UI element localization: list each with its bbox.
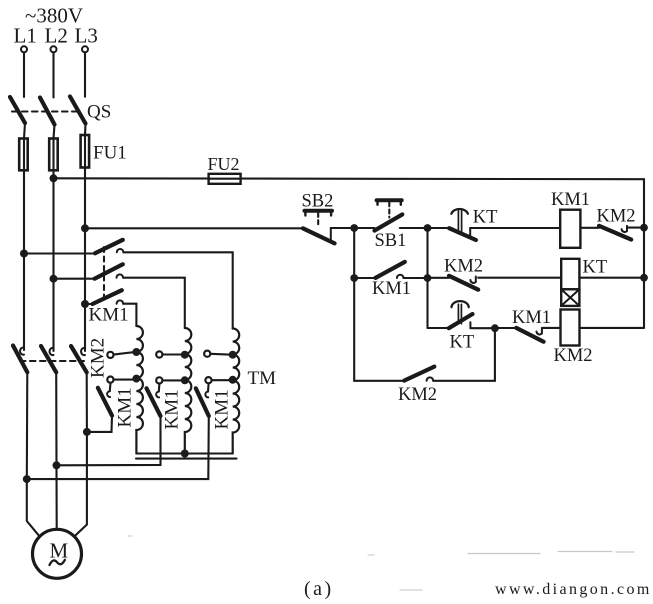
node winding2 lower tap [181,376,189,384]
node control junction A [350,224,358,232]
wire L3 terminal to QS [84,53,86,97]
wire left rail corner row4 [354,380,404,382]
relay KT delayed NC stems [458,211,461,234]
wire L2 below KM2 [55,372,57,465]
svg-text:KM1: KM1 [115,387,136,427]
node winding1 lower tap [132,375,140,383]
pushbutton SB2 blade [303,228,335,243]
svg-text:KM2: KM2 [554,346,593,366]
wire left control rail [353,228,355,381]
terminal L1 [21,46,27,52]
relay KT delayed NC blade [449,228,476,240]
wire L3 below KM2 [86,372,88,432]
svg-text:M: M [50,539,69,563]
wire QS to FU1 L2 [54,125,55,139]
terminal winding3 upper tap circle [210,353,229,356]
svg-text:www.diangon.com: www.diangon.com [495,581,652,598]
wire node B2 to KM2 NC row2 [428,277,450,279]
wire KM1 tap blade1 to L3 [87,416,112,432]
svg-text:KM2: KM2 [597,207,636,227]
switch QS blade 2 [40,98,55,125]
svg-text:SB2: SB2 [302,192,334,212]
contactor KM1 aux NO hook [397,275,404,278]
contactor KM1 main contact hook 2 [117,274,124,277]
wire L3 into motor [75,432,87,536]
wire KM1 aux to node B2 [404,277,428,279]
svg-text:KM1: KM1 [212,389,233,429]
wire KT coil to right rail [579,277,644,279]
coil KM2 [561,310,580,346]
contactor KM1 tap contact 3 stub [207,384,210,392]
wire KM2 NC row2 to KT coil [478,277,561,279]
svg-text:FU1: FU1 [93,143,127,164]
node junction L3 control feed [81,224,89,232]
wire KM1 blade3 to winding1 top [123,304,136,326]
svg-text:(a): (a) [304,578,334,600]
coil KT delay box with X [561,289,579,306]
contactor KM2 main contact 1 hook [20,348,24,355]
relay KT delayed NO stems [458,304,461,324]
node middle rail row2 [424,274,432,282]
terminal winding2 upper tap circle [162,353,181,355]
node control junction B [424,224,432,232]
wire QS to FU1 L1 [24,123,25,139]
svg-text:KM2: KM2 [88,338,109,378]
contactor KM2 aux NO blade row4 [404,367,434,381]
contactor KM1 main blade 1 [95,240,123,254]
wire KM1 blade1 to winding3 top [123,252,232,328]
wire L1 terminal to QS [23,53,25,98]
motor M circle [33,529,82,578]
terminal winding3 lower tap circle [212,379,229,381]
terminal winding1 lower tap circle [114,379,133,381]
svg-text:FU2: FU2 [208,154,240,174]
fuse FU1 element 3 [81,135,90,168]
watermark smudge [468,552,634,554]
wire L3 down [84,228,86,304]
contactor KM1 tap contact 2 hook [156,392,159,398]
wire L3 down to KM2 [84,304,86,351]
pushbutton SB1 blade [375,214,403,230]
node winding2 upper tap [181,351,189,359]
node junction L2 motor wire [53,461,61,469]
terminal L3 [82,46,88,52]
contactor KM1 main contact hook 1 [117,249,124,252]
fuse FU2 [209,174,241,184]
pushbutton SB1 stem dashed [388,202,390,217]
node left rail row2 [350,274,358,282]
wire through fuse L1 [23,139,25,179]
contactor KM2 main blade 3 [71,346,87,372]
fuse FU1 element 2 [49,139,58,171]
svg-text:KM1: KM1 [551,190,590,210]
wire L1 to KM1 blade1 [24,252,95,254]
transformer TM winding 3 [233,329,240,454]
contactor KM2 NC blade row2 [449,276,478,290]
node right rail row1 [640,224,648,232]
wire KM1 tap blade2 to L2 [57,416,161,465]
contactor KM1 NC blade row3 [516,328,543,342]
relay KT delayed NO blade [449,314,473,328]
pushbutton SB2 bar [305,209,333,213]
wire KM1 tap blade3 to L1 [27,416,209,479]
wire KM2 coil to right rail [580,327,645,329]
contactor KM2 main contact 3 hook [81,348,85,355]
wire to KM1 aux NO [354,277,375,279]
svg-text:KT: KT [450,333,475,353]
fuse FU1 element 1 [19,139,28,171]
relay KT delayed NC arc [451,209,468,214]
contactor KM1 aux NO blade [376,262,405,278]
node winding1 upper tap [132,348,140,356]
terminal L2 [51,46,57,52]
pushbutton SB1 bar [377,198,402,202]
svg-text:SB1: SB1 [375,231,407,251]
contactor KM2 main blade 1 [13,346,27,373]
wire star point bus [136,452,232,454]
wire QS to FU1 L3 [84,124,87,136]
node right rail row2 [640,274,648,282]
wire L2 to KM1 blade2 [54,278,95,280]
wire FU2 feed line [54,177,645,180]
node junction L1 motor wire [23,475,31,483]
contactor KM2 NC hook row1 [622,226,627,232]
contactor KM2 main contact 2 hook [50,348,54,355]
contactor KM1 tap blade 1 [98,388,112,416]
svg-text:KT: KT [473,208,498,228]
wire KM1 blade2 to winding2 top [123,278,185,328]
wire control feed row [85,227,303,229]
node star point junction [181,450,189,458]
wire node B to KT contact [428,227,450,229]
node winding3 upper tap [229,351,237,359]
contactor KM1 tap blade 2 [147,388,161,416]
contactor KM1 tap contact 3 hook [205,392,208,398]
switch QS blade 3 [70,97,86,124]
switch QS linkage dashed [12,110,82,112]
wire L2 below FU2 tap [52,178,54,351]
wire KM2 NC to right rail [627,227,644,229]
terminal winding2 lower tap circle [162,379,181,381]
svg-text:KM1: KM1 [89,305,129,326]
wire L1 below KM2 [26,372,29,479]
motor M tilde [50,560,65,565]
svg-text:L1: L1 [14,24,37,48]
wire KT NO to node C [470,327,495,329]
wire middle rail corner to KT NO [428,327,449,329]
contactor KM1 main blade 2 [95,264,123,278]
svg-text:TM: TM [248,368,277,389]
relay KT delayed NC stub [469,228,471,236]
coil KM1 [560,210,580,248]
coil KT box [561,259,579,290]
relay KT delayed NO stub [469,322,471,328]
contactor KM1 tap contact 1 hook [107,391,110,397]
svg-text:KM1: KM1 [372,279,411,299]
contactor KM2 main blade 2 [41,346,56,372]
contactor KM2 NC hook row2 [470,277,475,283]
contactor KM1 NC hook row3 [537,328,542,334]
wire L2 terminal to QS [52,53,54,98]
wire through fuse L2 [52,139,54,179]
relay KT delayed NO arc [452,301,469,307]
node junction L2 to FU2 [50,174,58,182]
contactor KM1 tap blade 3 [196,388,209,416]
svg-text:KM2: KM2 [398,385,437,405]
wire node A to SB1 [354,227,374,229]
wire KM2 row4 to node C [433,328,495,381]
contactor KM2 NC blade row1 [599,226,631,240]
terminal winding1 upper tap circle [114,352,133,354]
transformer TM winding 2 [185,328,192,454]
node junction L3 motor wire [83,428,91,436]
wire L3 to KM1 blade3 [85,303,93,305]
contactor KM2 main linkage dashed [20,360,84,362]
contactor KM1 main blade 3 [93,290,122,304]
wire through fuse L3 [84,135,86,228]
wire L1 down to KM2 [23,178,25,350]
wire node C to KM1 NC [495,327,516,329]
wire KM1 coil to KM2 NC [580,227,599,229]
svg-text:QS: QS [87,102,111,123]
contactor KM1 tap contact 1 stub [109,383,112,391]
pushbutton SB2 stem dashed [317,213,319,227]
switch QS blade 1 [10,97,25,123]
node junction L3 to KM1 blade3 [81,300,89,308]
pushbutton SB2 fixed contact stub [330,228,332,240]
wire L1 into motor [27,479,40,536]
wire middle control rail [426,228,428,328]
wire L2 into motor [55,465,57,529]
wire KM1 NC to KM2 coil [542,327,561,329]
wire SB1 to node B [400,227,428,229]
svg-text:L2: L2 [45,24,68,48]
wire second bus line [136,458,237,460]
svg-text:L3: L3 [75,24,98,48]
node junction C [491,324,499,332]
svg-text:KM1: KM1 [162,389,183,429]
transformer TM winding 1 [136,326,143,454]
node junction L1 to KM1 blade1 [20,250,28,258]
contactor KM1 tap contact 2 stub [158,384,161,392]
wire right control rail [643,179,645,328]
node winding3 lower tap [229,376,237,384]
contactor KM2 aux NO hook row4 [427,377,434,380]
contactor KM1 main contact hook 3 [117,300,124,303]
svg-text:KT: KT [583,258,608,278]
wire KT contact to KM1 coil [470,227,560,229]
wire SB2 to node [331,227,354,229]
node junction L2 to KM1 blade2 [50,275,58,283]
svg-text:KM1: KM1 [512,308,551,328]
svg-text:KM2: KM2 [444,257,483,277]
contactor KM1 main linkage dashed [103,247,105,303]
